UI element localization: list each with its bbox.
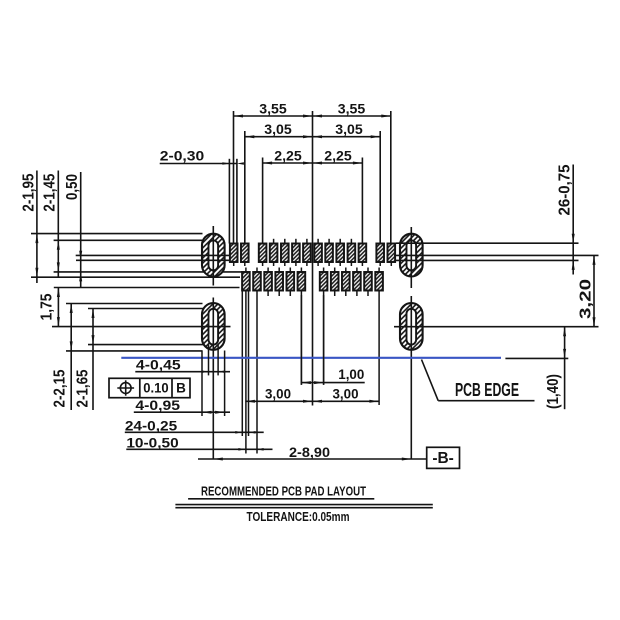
dimension 2-1,65 lower slot length with extension lines	[92, 309, 94, 411]
dimension (1,40) oval to PCB edge	[564, 327, 566, 410]
upper-left oval through-hole pad	[202, 234, 225, 277]
svg-text:2-0,30: 2-0,30	[160, 147, 205, 163]
svg-text:3,05: 3,05	[335, 121, 363, 137]
svg-text:4-0,45: 4-0,45	[136, 356, 181, 372]
PCB EDGE label with leader	[422, 360, 439, 401]
pad bottom row (2.5mm)	[364, 272, 372, 291]
svg-text:-B-: -B-	[432, 450, 454, 467]
svg-text:1,00: 1,00	[338, 366, 364, 382]
svg-text:(1,40): (1,40)	[545, 374, 562, 409]
pad 12 top row (2.25mm)	[359, 244, 367, 263]
dimension 1,00 center pad spacing	[300, 295, 302, 385]
pad bottom row (1.0mm)	[331, 272, 339, 291]
svg-text:2-8,90: 2-8,90	[289, 444, 330, 460]
label 4-0,45 slot width with leader	[208, 345, 210, 376]
svg-text:B: B	[176, 381, 186, 396]
svg-text:3,00: 3,00	[265, 386, 291, 402]
pad 13 top row (3.05mm)	[376, 244, 384, 263]
dimension 2-2,15 lower oval length with extension lines	[70, 304, 72, 411]
pad width extension lines for 24-0,25	[241, 291, 243, 437]
svg-text:PCB EDGE: PCB EDGE	[455, 379, 519, 400]
PCB edge line (blue)	[121, 357, 501, 359]
lower-right oval crosshair and datum extension	[394, 326, 599, 328]
label 4-0,95 oval width with leader	[201, 351, 203, 417]
svg-text:2,25: 2,25	[274, 148, 302, 164]
pad 9 top row (0.75mm)	[325, 244, 333, 263]
pad 10 top row (1.25mm)	[336, 244, 344, 263]
pad bottom row (-2.0mm)	[264, 272, 272, 291]
pad bottom row (-1.5mm)	[275, 272, 283, 291]
svg-text:3,05: 3,05	[264, 121, 292, 137]
svg-text:2-2,15: 2-2,15	[52, 369, 69, 407]
pad 6 top row (-0.75mm)	[292, 244, 300, 263]
dimension 3,55 left and right with extension lines	[234, 115, 391, 117]
pad 14 top row (3.55mm)	[388, 244, 396, 263]
dimension 3,20 oval row spacing	[593, 255, 595, 326]
pad bottom row (-1.0mm)	[287, 272, 295, 291]
svg-text:3,55: 3,55	[338, 101, 366, 117]
upper-left oval pad crosshair	[76, 254, 231, 256]
svg-text:26-0,75: 26-0,75	[557, 164, 574, 215]
pad 4 top row (-1.75mm)	[270, 244, 278, 263]
pad bottom row (1.5mm)	[342, 272, 350, 291]
svg-text:2-1,45: 2-1,45	[42, 174, 59, 212]
GD&T position tolerance frame 0.10 B	[109, 378, 190, 397]
dimensions 3,00 left and right	[245, 400, 379, 402]
datum -B- box	[427, 447, 460, 468]
lower-right oval through-hole pad	[400, 303, 423, 350]
lower-left oval through-hole pad	[202, 303, 225, 350]
pad bottom row (-2.5mm)	[253, 272, 261, 291]
lower-left oval pad crosshair and datum extension	[52, 326, 231, 328]
svg-text:0,50: 0,50	[64, 174, 81, 200]
svg-text:24-0,25: 24-0,25	[125, 417, 178, 433]
PCB edge extension line right	[505, 357, 568, 359]
dimension 2,25 left and right with extension lines	[263, 162, 363, 164]
svg-text:3,00: 3,00	[333, 386, 359, 402]
svg-text:2-1,65: 2-1,65	[75, 369, 92, 407]
upper-right oval crosshair with 3,20 extension	[394, 254, 599, 256]
svg-text:2-1,95: 2-1,95	[21, 174, 38, 212]
svg-text:2,25: 2,25	[324, 148, 352, 164]
svg-text:3,20: 3,20	[578, 279, 595, 319]
pad bottom row (-3.0mm)	[242, 272, 250, 291]
pad 11 top row (1.75mm)	[348, 244, 356, 263]
dimension 2-1,45 slot length with extension lines	[57, 171, 59, 278]
svg-text:RECOMMENDED PCB PAD LAYOUT: RECOMMENDED PCB PAD LAYOUT	[201, 484, 366, 499]
svg-text:TOLERANCE:0.05mm: TOLERANCE:0.05mm	[247, 510, 350, 524]
dimension 1,75 with extension line	[57, 288, 59, 327]
dimension 0,50 row gap with extension line	[80, 172, 82, 288]
dimension 3,05 left and right with extension lines	[245, 136, 380, 138]
pad 2 top row (-3.05mm)	[241, 244, 249, 263]
pad bottom row (0.5mm)	[320, 272, 328, 291]
pad 1 top row (-3.55mm)	[230, 244, 238, 263]
pad 3 top row (-2.25mm)	[259, 244, 267, 263]
pad 8 top row (0.25mm)	[314, 244, 322, 263]
upper-right oval through-hole pad	[400, 234, 423, 277]
pad bottom row (3.0mm)	[375, 272, 383, 291]
svg-text:0.10: 0.10	[143, 381, 168, 396]
dimension 26-0,75 pad length	[572, 165, 574, 275]
svg-text:4-0,95: 4-0,95	[135, 397, 180, 413]
pad 7 top row (-0.25mm)	[303, 244, 311, 263]
pad 5 top row (-1.25mm)	[281, 244, 289, 263]
pad bottom row (2.0mm)	[353, 272, 361, 291]
svg-text:10-0,50: 10-0,50	[126, 434, 179, 450]
pad bottom row (-0.5mm)	[298, 272, 306, 291]
svg-text:3,55: 3,55	[259, 101, 287, 117]
dimension 2-8,90 oval span	[198, 458, 427, 460]
pad row top and bottom extension lines for 26-0,75	[396, 242, 579, 244]
dimension 2-1,95 oval pad length with extension lines	[36, 171, 38, 284]
svg-text:1,75: 1,75	[39, 293, 56, 320]
centerline of connector	[312, 111, 314, 406]
